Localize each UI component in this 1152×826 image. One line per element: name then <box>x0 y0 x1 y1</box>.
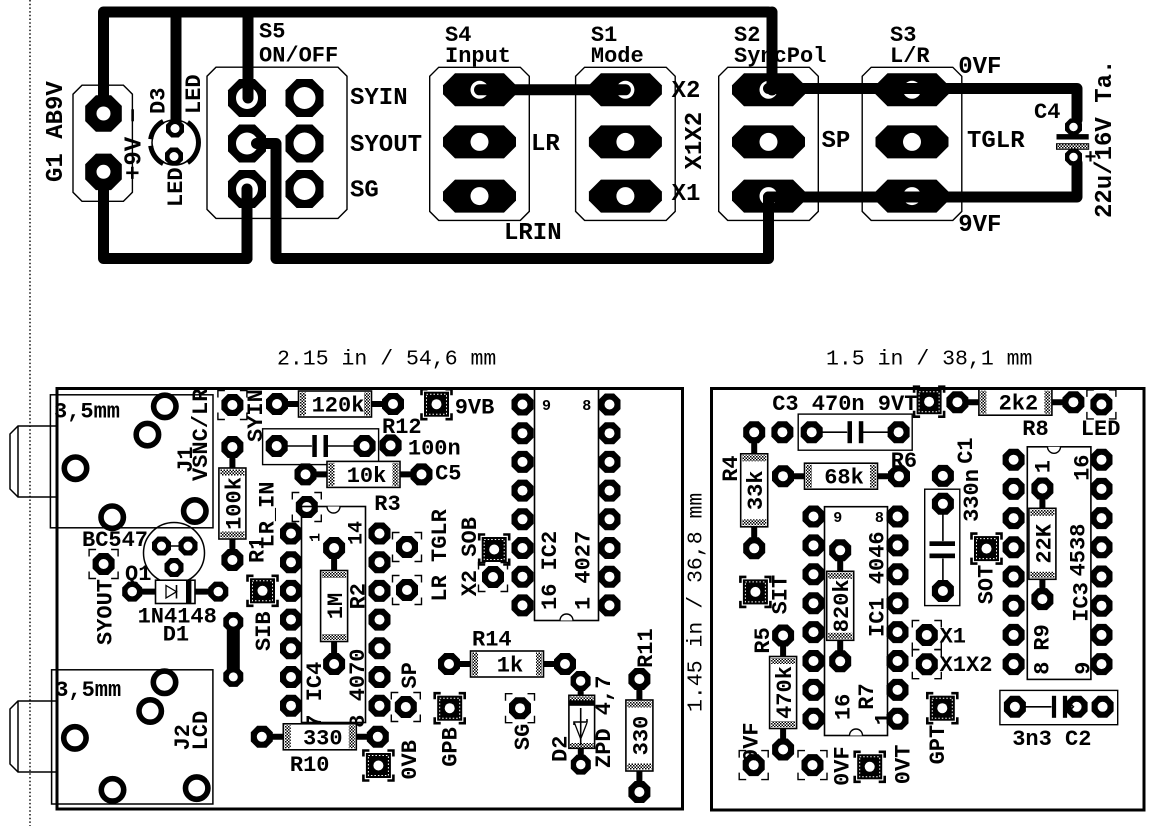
jack J2 body outline <box>52 670 213 804</box>
wire top rail drop to S5 pin <box>243 12 254 98</box>
svg-text:LED: LED <box>182 74 207 114</box>
svg-text:820k: 820k <box>830 579 855 632</box>
svg-text:9VB: 9VB <box>455 396 495 421</box>
svg-text:R8: R8 <box>1022 417 1048 442</box>
smd pad GPB <box>437 696 462 721</box>
svg-text:X1: X1 <box>672 181 701 208</box>
wire top rail drop to D3 anode <box>171 12 182 124</box>
svg-text:120k: 120k <box>312 394 365 419</box>
wire jumper <box>227 622 240 677</box>
test pad SG <box>509 697 531 719</box>
wire SG net S5 bottom-left pad to rail <box>242 189 253 259</box>
svg-text:IC3: IC3 <box>1069 582 1094 622</box>
resistor R5 470k vertical <box>782 636 784 750</box>
resistor R11 330 vertical <box>638 679 640 792</box>
resistor R8 2k2 horizontal <box>957 401 1073 403</box>
svg-text:SIT: SIT <box>768 575 793 615</box>
svg-text:0VF: 0VF <box>831 746 856 786</box>
test pad 0VF <box>802 754 824 776</box>
svg-text:LED: LED <box>164 167 189 207</box>
capacitor C1 330n box <box>925 489 960 605</box>
svg-text:2.15 in / 54,6 mm: 2.15 in / 54,6 mm <box>277 348 496 372</box>
svg-text:Mode: Mode <box>591 44 644 69</box>
LED D3 cathode pad <box>166 120 184 138</box>
svg-text:C4: C4 <box>1034 100 1060 125</box>
svg-text:SG: SG <box>350 178 379 205</box>
IC1 socket pads right <box>887 506 909 528</box>
svg-text:C3 470n 9VT: C3 470n 9VT <box>772 392 917 417</box>
switch S3 pads <box>876 73 949 106</box>
svg-text:10k: 10k <box>347 464 387 489</box>
svg-text:22K: 22K <box>1032 523 1057 563</box>
svg-text:100k: 100k <box>222 477 247 530</box>
svg-text:1M: 1M <box>324 593 349 619</box>
smd pad GPT <box>930 696 955 721</box>
transistor Q1 pads <box>152 537 171 556</box>
switch S3 outline <box>862 67 962 220</box>
resistor R14 1k horizontal <box>449 663 565 665</box>
svg-text:22u/16V Ta.: 22u/16V Ta. <box>1092 60 1119 218</box>
switch S5 pads ring column right <box>286 79 324 117</box>
jack J1 body outline <box>50 395 213 528</box>
svg-text:9: 9 <box>833 510 842 527</box>
svg-text:D1: D1 <box>163 623 189 648</box>
switch S1 outline <box>576 67 676 220</box>
right board outline <box>712 389 1145 811</box>
capacitor C4 plates <box>1057 134 1089 139</box>
wire SYOUT net: S5 mid pad right-down to rail to S2 bottom <box>257 144 769 259</box>
diode D1 1N4148 <box>132 591 218 593</box>
frame dotted left border line <box>29 0 31 826</box>
test pad 9VF <box>743 754 765 776</box>
svg-text:SG: SG <box>511 724 536 750</box>
pad C5 right outside <box>380 434 402 456</box>
switch S2 outline <box>719 67 819 220</box>
test pad TGLR <box>396 579 418 601</box>
svg-text:SYIN: SYIN <box>350 85 408 112</box>
svg-text:9: 9 <box>1071 662 1096 675</box>
resistor R12 120k horizontal <box>277 403 393 405</box>
test pad X1 <box>916 624 938 646</box>
svg-text:SP: SP <box>398 662 423 688</box>
svg-text:R4: R4 <box>719 455 744 481</box>
smd pad SOT <box>974 536 999 561</box>
test pad LR_IN <box>296 496 318 518</box>
svg-text:Input: Input <box>445 44 511 69</box>
IC4 socket pads left <box>280 523 302 545</box>
battery G1 AB9V outline <box>73 85 132 201</box>
svg-text:LCD: LCD <box>189 711 214 751</box>
capacitor C2 arrow mark <box>1069 702 1074 712</box>
switch S4 pads <box>443 73 516 106</box>
svg-text:0VT: 0VT <box>891 745 916 785</box>
svg-text:1.45 in / 36,8 mm: 1.45 in / 36,8 mm <box>685 493 709 712</box>
LED D3 thick arcs <box>188 122 199 162</box>
svg-text:LR TGLR: LR TGLR <box>428 508 453 601</box>
svg-text:R9: R9 <box>1031 624 1056 650</box>
svg-text:1: 1 <box>1031 460 1056 473</box>
IC4 socket pads right <box>369 523 391 545</box>
IC3 socket pads left <box>1003 449 1025 471</box>
svg-text:R10: R10 <box>290 753 330 778</box>
svg-text:330: 330 <box>629 716 654 756</box>
svg-text:330: 330 <box>303 726 343 751</box>
svg-text:G1 AB9V: G1 AB9V <box>43 81 70 182</box>
svg-text:LRIN: LRIN <box>504 220 562 247</box>
svg-text:3,5mm: 3,5mm <box>54 400 120 425</box>
svg-text:SYIN: SYIN <box>244 389 269 442</box>
svg-text:R3: R3 <box>374 492 400 517</box>
svg-text:X1X2: X1X2 <box>682 112 709 170</box>
svg-text:SIB: SIB <box>252 611 277 651</box>
smd pad SIT <box>743 579 768 604</box>
switch S5 pads ring column left <box>228 79 266 117</box>
svg-text:33k: 33k <box>744 470 769 510</box>
svg-text:8: 8 <box>875 510 884 527</box>
svg-text:2k2: 2k2 <box>999 392 1039 417</box>
svg-text:7 IC4: 7 IC4 <box>303 662 328 728</box>
wire X2 net S4 to S1 <box>480 84 626 95</box>
wire 0VF net S2 top - S3 top - C4 plus <box>769 89 1078 121</box>
svg-text:S5: S5 <box>259 20 285 45</box>
capacitor C2 3n3 box <box>1000 690 1118 724</box>
resistor R10 330 horizontal <box>262 736 378 738</box>
capacitor C4 pad minus <box>1065 149 1082 166</box>
svg-text:68k: 68k <box>824 466 864 491</box>
smd pad 0VB <box>366 753 391 778</box>
test pad SOB <box>482 566 504 588</box>
wire +9V top rail from G1 to S2 <box>104 12 769 113</box>
svg-text:3n3 C2: 3n3 C2 <box>1012 727 1091 752</box>
svg-text:0VF: 0VF <box>958 54 1001 81</box>
resistor R4 33k vertical <box>753 432 755 548</box>
resistor R7 820k vertical <box>839 550 841 661</box>
battery G1 pad minus <box>85 95 122 132</box>
svg-text:R2: R2 <box>346 583 371 609</box>
svg-text:L/R: L/R <box>890 44 930 69</box>
smd pad SIB <box>250 578 275 603</box>
svg-text:LR: LR <box>531 131 560 158</box>
svg-text:R6: R6 <box>891 449 917 474</box>
svg-text:ON/OFF: ON/OFF <box>259 44 338 69</box>
wire top rail drop to S2 top pad <box>767 12 778 90</box>
svg-text:SOT: SOT <box>974 565 999 605</box>
svg-text:9VF: 9VF <box>739 722 764 762</box>
wire 9VF net C4 minus - S3 bottom - S2 bottom <box>769 163 1078 197</box>
switch S5 ON/OFF outline <box>207 67 347 218</box>
jack J2 connector tab <box>10 701 56 772</box>
IC1 socket pads left <box>803 506 825 528</box>
pad left of C3 <box>771 421 793 443</box>
svg-text:SyncPol: SyncPol <box>734 44 826 69</box>
capacitor C5 100n box <box>263 429 379 465</box>
resistor R2 1M vertical <box>333 548 335 664</box>
test pad SYOUT <box>93 553 115 575</box>
svg-text:C1: C1 <box>954 437 979 463</box>
svg-text:0VB: 0VB <box>398 740 423 780</box>
wire SG net: G1 minus to bottom rail left segment <box>104 172 248 259</box>
capacitor C4 pad plus <box>1065 119 1082 136</box>
svg-text:C5: C5 <box>435 462 461 487</box>
svg-text:9VF: 9VF <box>958 212 1001 239</box>
switch S2 pads <box>732 73 805 106</box>
svg-text:D3: D3 <box>146 88 171 114</box>
left board outline <box>57 389 683 810</box>
svg-text:R11: R11 <box>634 628 659 668</box>
svg-text:3,5mm: 3,5mm <box>55 678 121 703</box>
switch S4 outline <box>430 67 530 220</box>
svg-text:+9V −: +9V − <box>121 108 148 180</box>
test pad LED <box>1090 393 1112 415</box>
test pad LR <box>396 536 418 558</box>
resistor R3 10k horizontal <box>306 473 422 475</box>
svg-text:TGLR: TGLR <box>967 128 1025 155</box>
svg-text:GPT: GPT <box>926 725 951 765</box>
transistor Q1 BC547 circle <box>144 523 205 584</box>
smd pad X2 <box>482 537 507 562</box>
svg-text:R7: R7 <box>855 683 880 709</box>
transistor Q1 base-collector line <box>162 545 188 547</box>
svg-text:X1: X1 <box>940 625 966 650</box>
svg-text:X2: X2 <box>672 78 701 105</box>
svg-text:IC1 4046: IC1 4046 <box>865 531 890 637</box>
svg-text:R14: R14 <box>472 628 512 653</box>
smd pad 9VT <box>917 389 942 414</box>
svg-text:SYOUT: SYOUT <box>350 132 422 159</box>
IC3 socket pads right <box>1091 449 1113 471</box>
switch S1 pads <box>589 73 662 106</box>
smd pad 0VT <box>857 754 882 779</box>
capacitor C3 470n box <box>798 414 912 450</box>
IC2 socket pads left <box>512 394 534 416</box>
svg-text:16 IC2: 16 IC2 <box>538 531 563 610</box>
svg-text:16: 16 <box>1070 454 1095 480</box>
zener diode D2 ZPD4,7 vertical <box>580 681 582 765</box>
svg-text:X2 SOB: X2 SOB <box>458 517 483 596</box>
IC2 socket pads right <box>599 394 621 416</box>
resistor R6 68k horizontal <box>783 475 899 477</box>
LED D3 body circle <box>152 120 197 165</box>
svg-text:X1X2: X1X2 <box>940 653 993 678</box>
jack J1 holes <box>154 395 176 417</box>
svg-text:16: 16 <box>831 694 856 720</box>
svg-text:SP: SP <box>822 128 851 155</box>
svg-text:D2: D2 <box>548 736 573 762</box>
IC3 4538 body outline <box>1027 447 1091 680</box>
svg-text:ZPD 4,7: ZPD 4,7 <box>592 676 617 768</box>
jack J2 holes <box>153 671 175 693</box>
svg-text:GPB: GPB <box>438 727 463 767</box>
svg-text:VSNC/LR: VSNC/LR <box>189 388 214 481</box>
svg-text:LED: LED <box>1081 417 1121 442</box>
svg-text:330n: 330n <box>960 469 985 522</box>
pad right of 68k <box>932 465 954 487</box>
smd pad 9VB <box>424 392 449 417</box>
svg-text:4538: 4538 <box>1066 524 1091 577</box>
svg-text:1: 1 <box>871 712 896 725</box>
svg-text:LR_IN: LR_IN <box>255 481 280 547</box>
svg-text:14: 14 <box>346 521 369 545</box>
IC1 4046 body outline <box>825 507 888 736</box>
LED D3 anode pad <box>165 148 183 166</box>
svg-text:SYOUT: SYOUT <box>93 579 118 645</box>
test pad SYIN <box>221 394 243 416</box>
resistor R1 100k vertical <box>231 447 233 560</box>
svg-text:R5: R5 <box>751 627 776 653</box>
jack J1 connector tab <box>10 426 56 497</box>
IC4 4070 body outline <box>302 507 366 723</box>
test pad SP <box>395 696 417 718</box>
battery G1 pad plus <box>85 154 122 191</box>
svg-text:470k: 470k <box>773 666 798 719</box>
svg-text:1: 1 <box>308 533 325 542</box>
svg-text:1.5 in / 38,1 mm: 1.5 in / 38,1 mm <box>826 348 1032 372</box>
resistor R9 22K vertical <box>1041 489 1043 600</box>
svg-text:8: 8 <box>582 398 591 415</box>
svg-text:1k: 1k <box>497 654 523 679</box>
svg-text:8: 8 <box>1030 662 1055 675</box>
svg-text:8 4070: 8 4070 <box>346 648 371 727</box>
test pad X1X2 <box>916 653 938 675</box>
svg-text:1 4027: 1 4027 <box>572 531 597 610</box>
svg-text:100n: 100n <box>408 437 461 462</box>
IC2 4027 body outline <box>535 389 599 621</box>
svg-text:9: 9 <box>542 398 551 415</box>
